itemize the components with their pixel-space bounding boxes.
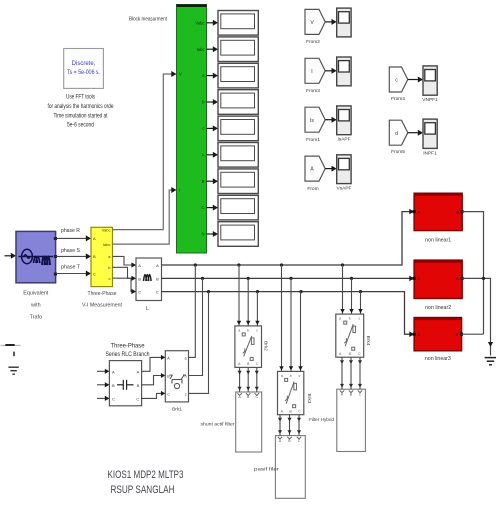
wires Brk2 to F1: [239, 367, 241, 392]
svg-text:Series RLC Branch: Series RLC Branch: [106, 352, 150, 358]
junction at right bus: [482, 277, 485, 280]
svg-text:V: V: [179, 72, 182, 77]
tap bus A to Brk1: [189, 265, 196, 357]
wire RLC A to Brk1: [142, 357, 161, 371]
powergui block Discrete: [64, 49, 104, 89]
svg-text:IsAPF: IsAPF: [337, 136, 350, 142]
ground left: [1, 344, 21, 346]
display block D6: [218, 143, 258, 168]
svg-text:pasif filer: pasif filer: [254, 467, 280, 473]
svg-text:Filter Hybrid: Filter Hybrid: [309, 417, 334, 423]
bus wire phase C: [162, 292, 410, 335]
scope for From1: [337, 106, 351, 135]
svg-text:phase S: phase S: [61, 248, 81, 254]
wire RLC B to Brk1: [142, 376, 161, 385]
svg-text:B: B: [156, 276, 159, 281]
svg-text:Three-Phase: Three-Phase: [88, 291, 117, 297]
svg-text:A: A: [93, 236, 96, 241]
tap bus B to Brk1: [189, 278, 203, 375]
svg-text:A: A: [112, 369, 115, 374]
svg-text:a: a: [281, 374, 283, 378]
svg-text:Brk2: Brk2: [263, 341, 269, 351]
svg-text:RSUP SANGLAH: RSUP SANGLAH: [111, 484, 175, 496]
display block D9: [218, 222, 258, 247]
svg-text:Equivalent: Equivalent: [23, 291, 48, 297]
from tag From5: [389, 120, 408, 145]
wire From5 to scope: [408, 132, 418, 134]
svg-text:phase T: phase T: [61, 264, 81, 270]
source block Equivalent with Trafo: [16, 231, 56, 282]
svg-text:I: I: [311, 69, 312, 75]
svg-text:INPF1: INPF1: [423, 150, 437, 156]
svg-text:c: c: [299, 374, 301, 378]
filter block F2 (hybrid filter): [275, 436, 305, 499]
svg-text:L: L: [146, 306, 149, 312]
svg-text:5e-6 second: 5e-6 second: [67, 122, 94, 128]
wire green to D9: [207, 233, 214, 235]
svg-text:Vabc: Vabc: [102, 228, 111, 233]
svg-text:B: B: [456, 277, 459, 281]
wire From2 to scope: [325, 21, 331, 23]
svg-text:non linear3: non linear3: [425, 356, 451, 362]
Brk1 icon: [170, 375, 187, 389]
scope for From2: [337, 8, 351, 37]
svg-text:Is: Is: [310, 118, 314, 124]
svg-text:C: C: [138, 290, 141, 295]
svg-text:a: a: [339, 317, 341, 321]
three-phase series RLC branch block: [109, 361, 141, 406]
breaker Brk4: [336, 314, 364, 357]
Brk3 switch icon: [285, 378, 297, 407]
wire phase T: [57, 273, 87, 275]
svg-text:c: c: [109, 276, 111, 281]
svg-text:Three-Phase: Three-Phase: [111, 343, 146, 349]
svg-text:From3: From3: [306, 88, 320, 94]
svg-text:Iabc: Iabc: [103, 242, 111, 247]
wire green to D3: [207, 75, 214, 77]
wire nonlinear1 out: [462, 212, 483, 335]
wire c to L: [113, 278, 132, 291]
svg-text:B: B: [93, 254, 96, 259]
display block D7: [218, 169, 258, 194]
svg-text:C: C: [112, 396, 115, 401]
breaker Brk2: [235, 326, 262, 368]
display block D3: [218, 63, 258, 88]
arrow into right ground: [488, 342, 493, 347]
display block D2: [218, 37, 258, 62]
display block D1: [218, 11, 258, 36]
breaker Brk1: [165, 351, 188, 402]
wire RLC C to Brk1: [142, 393, 161, 398]
svg-text:B: B: [202, 179, 205, 184]
svg-text:Ts = 5e-006 s.: Ts = 5e-006 s.: [67, 70, 100, 76]
svg-text:From: From: [307, 186, 318, 192]
svg-text:Trafo: Trafo: [30, 315, 42, 321]
svg-text:Brk4: Brk4: [365, 336, 371, 346]
inductor block L: [136, 258, 162, 301]
scope INPF1: [423, 119, 437, 148]
wire From1 to scope: [325, 119, 331, 121]
svg-text:From2: From2: [306, 39, 320, 45]
inductor icon: [144, 275, 152, 282]
wire From3 to scope: [325, 70, 331, 72]
wire green to D6: [207, 154, 214, 156]
wires Brk4 to F3: [341, 357, 343, 389]
scope VNPF1: [423, 66, 437, 95]
svg-text:A: A: [167, 356, 170, 360]
svg-text:with: with: [30, 303, 41, 309]
wire nonlinear2 out to ground: [462, 278, 490, 355]
source icon sine+transformer: [19, 249, 54, 265]
from tag From: [305, 156, 325, 181]
svg-text:From4: From4: [391, 96, 405, 102]
nonlinear load non linear1: [414, 193, 462, 230]
nonlinear load non linear2: [414, 260, 462, 298]
ground right: [485, 358, 496, 365]
svg-text:b: b: [247, 329, 249, 333]
taps bus to Brk2: [238, 265, 240, 326]
svg-text:Vabc: Vabc: [195, 20, 204, 25]
svg-text:c: c: [185, 392, 187, 396]
svg-text:Use FFT tools: Use FFT tools: [66, 95, 95, 101]
svg-text:Brk1: Brk1: [172, 407, 182, 413]
Brk4 switch icon: [344, 321, 356, 350]
svg-text:Block measurment: Block measurment: [129, 17, 167, 23]
svg-text:I: I: [179, 188, 180, 193]
svg-text:b: b: [349, 317, 351, 321]
svg-text:non linear1: non linear1: [425, 238, 451, 244]
source output ports: [54, 237, 57, 240]
wire green to D7: [207, 180, 214, 182]
wire green to D4: [207, 101, 214, 103]
subsystem Block-measurement (green): [177, 5, 207, 254]
bus wire phase B: [162, 277, 410, 279]
svg-text:for analysis the harmonics ord: for analysis the harmonics orde: [48, 104, 115, 110]
svg-text:shunt actif filter: shunt actif filter: [201, 422, 235, 428]
filter block F1 (passive filter): [236, 392, 262, 452]
svg-text:Brk3: Brk3: [306, 394, 312, 404]
scope for From: [337, 155, 351, 184]
svg-text:B: B: [112, 383, 115, 388]
svg-text:C: C: [156, 290, 159, 295]
svg-text:B: B: [456, 210, 459, 214]
svg-text:VNPF1: VNPF1: [422, 97, 438, 103]
breaker Brk3: [278, 371, 304, 414]
taps bus to Brk3: [281, 265, 283, 371]
svg-text:phase R: phase R: [61, 228, 80, 234]
svg-text:C: C: [93, 271, 96, 276]
source input stub: [5, 255, 12, 257]
wire phase R: [57, 237, 87, 239]
svg-text:Discrete,: Discrete,: [72, 61, 96, 67]
Brk2 switch icon: [242, 333, 254, 361]
wire green to D1: [207, 22, 214, 24]
RLC input stubs: [97, 370, 105, 372]
svg-text:From1: From1: [306, 137, 320, 143]
svg-text:C: C: [167, 392, 170, 396]
svg-text:non linear2: non linear2: [425, 305, 451, 311]
svg-text:A: A: [202, 152, 205, 157]
wire b to L: [113, 267, 132, 278]
svg-text:B: B: [138, 276, 141, 281]
wire nonlinear3 out: [462, 333, 484, 335]
svg-text:V-I Measurement: V-I Measurement: [82, 303, 122, 309]
from tag From2: [305, 9, 325, 34]
svg-text:d: d: [395, 131, 398, 137]
svg-text:c: c: [359, 317, 361, 321]
wire green to D2: [207, 48, 214, 50]
svg-text:C: C: [136, 396, 139, 401]
taps bus to Brk4: [342, 265, 344, 314]
svg-text:B: B: [137, 383, 140, 388]
svg-text:c: c: [256, 329, 258, 333]
svg-text:A: A: [137, 369, 140, 374]
capacitor icon: [117, 380, 134, 390]
svg-text:VsAPF: VsAPF: [337, 185, 352, 191]
nonlinear load non linear3: [414, 318, 462, 351]
from tag From1: [305, 107, 325, 132]
display block D5: [218, 116, 258, 141]
wires Brk3 to F2: [279, 415, 281, 436]
svg-text:a: a: [238, 329, 240, 333]
tap bus C to Brk1: [189, 292, 209, 394]
svg-text:c: c: [202, 126, 204, 131]
svg-text:C: C: [201, 205, 204, 210]
svg-text:KIOS1 MDP2 MLTP3: KIOS1 MDP2 MLTP3: [108, 469, 184, 481]
wire phase S: [57, 255, 87, 257]
wire green to D5: [207, 127, 214, 129]
wire Vabc to green: [113, 74, 173, 230]
wire From4 to scope: [408, 79, 418, 81]
display block D4: [218, 90, 258, 115]
bus junctions: [194, 263, 197, 266]
wire From to scope: [325, 168, 331, 170]
wire Iabc to green: [113, 190, 173, 244]
wire a to L: [113, 256, 132, 265]
display block D8: [218, 195, 258, 220]
from tag From4: [389, 67, 408, 92]
svg-text:b: b: [290, 374, 292, 378]
V-I measurement block (yellow): [91, 227, 113, 286]
svg-text:A: A: [138, 263, 141, 268]
svg-text:Time simulation started at: Time simulation started at: [54, 113, 108, 119]
filter block F3: [337, 389, 366, 451]
svg-text:From5: From5: [391, 149, 405, 155]
svg-text:Iabc: Iabc: [197, 47, 205, 52]
bus wire phase A: [162, 212, 410, 265]
svg-text:A: A: [156, 263, 159, 268]
scope for From3: [337, 57, 351, 86]
svg-text:N: N: [201, 232, 204, 237]
wire green to D8: [207, 207, 214, 209]
from tag From3: [305, 58, 325, 83]
